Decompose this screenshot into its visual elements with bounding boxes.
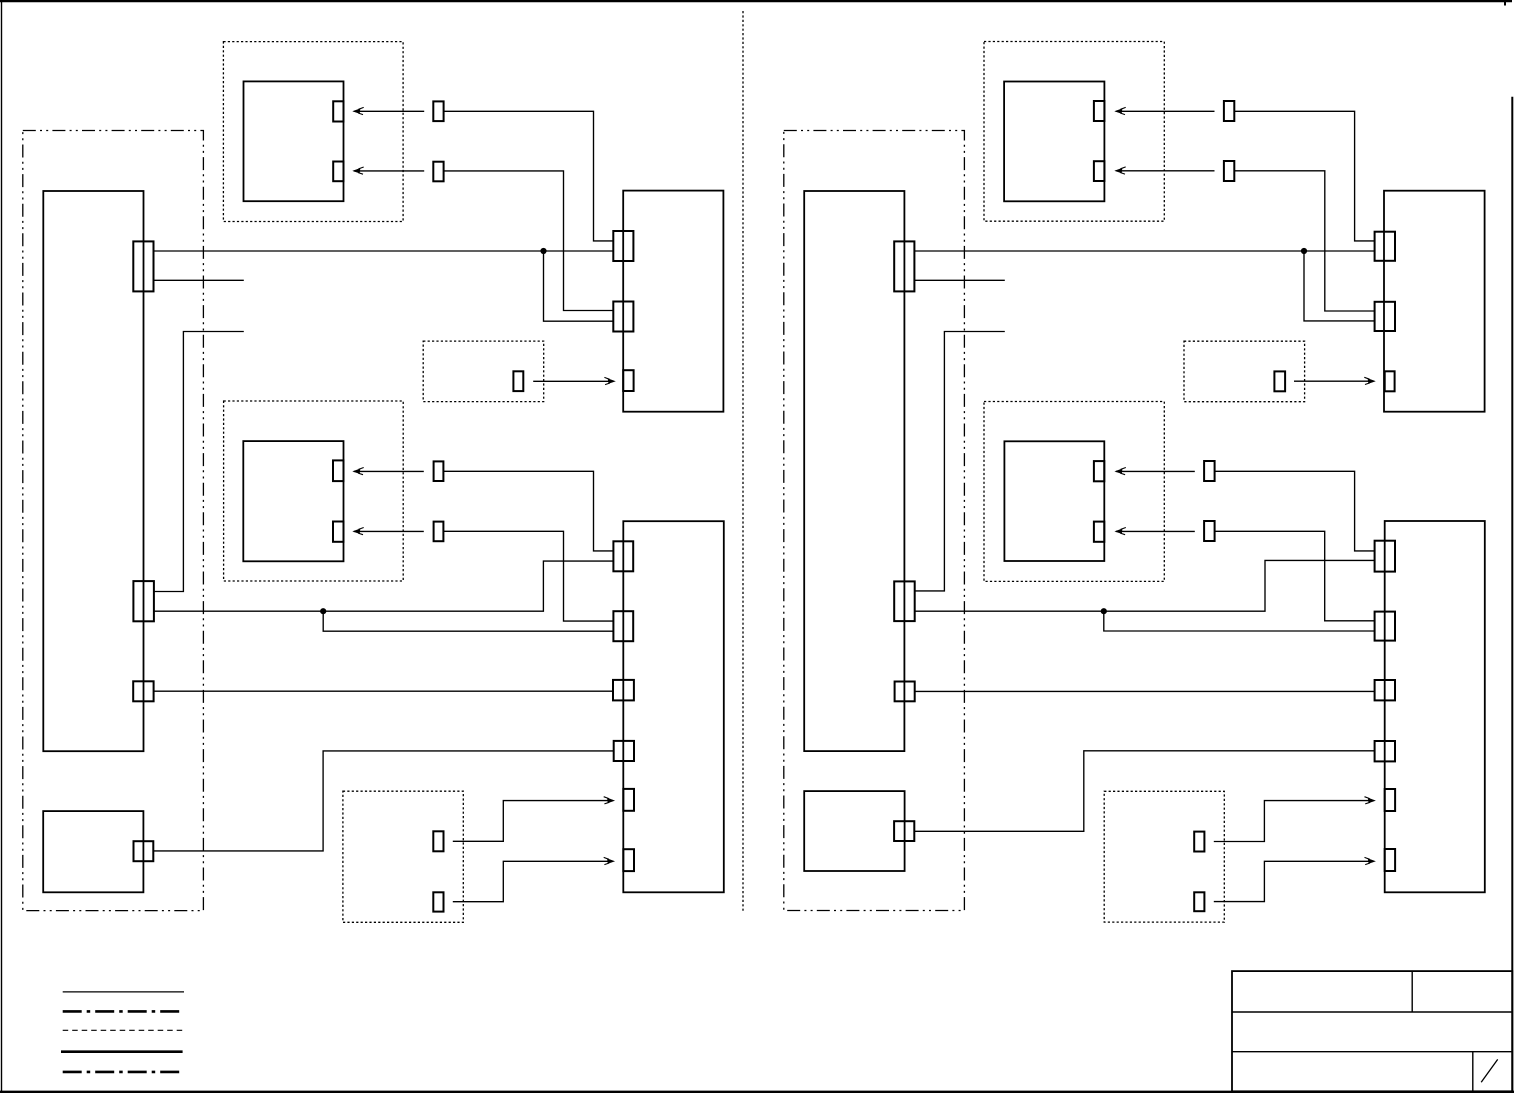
pin 2 of E4 (1375, 612, 1395, 641)
wire C6 to E4 pin1 (with jog up) (915, 560, 1375, 611)
pin 1 of D4 (1094, 461, 1104, 481)
device D1 inside B1 (244, 81, 344, 201)
harness box (dash-dot-dot) left (23, 131, 204, 911)
arrowhead at E2 pin5 (604, 797, 615, 804)
device D3 inside B3 (1004, 82, 1104, 202)
page left border (1, 0, 3, 1092)
title block column divider (top row) (1411, 971, 1413, 1012)
splice connector A3 (434, 461, 444, 481)
wire stub to C6 via riser (915, 332, 1005, 591)
wire A8 to E4 pin2 (1215, 531, 1375, 621)
junction node on C5 wire (1301, 248, 1307, 254)
title block small cell divider (bottom row) (1472, 1052, 1474, 1092)
pin of S1 (513, 371, 523, 391)
pin 4 of E2 (614, 741, 634, 761)
arrow wire into D3 pin1 (1116, 110, 1215, 112)
module box M2 (small, bottom-right half) (804, 791, 904, 871)
pin 5 of E4 (1385, 789, 1395, 811)
splice connector A1 (433, 101, 443, 121)
arrow wire into D1 pin1 (354, 110, 424, 112)
wire branch junction to E2 pin2 (323, 611, 613, 631)
wire stub from C5 (lower) (914, 279, 1004, 281)
pin 4 of E4 (1375, 741, 1395, 761)
arrowhead at E1 pin3 (604, 377, 615, 384)
title block row divider 2 (1232, 1051, 1512, 1053)
arrowhead at D4 pin2 (1115, 528, 1126, 535)
arrowhead at D2 pin2 (353, 528, 364, 535)
wire A6 to E3 pin2 (1234, 171, 1374, 311)
pin 6 of E2 (623, 849, 634, 871)
ECU box E1 (upper-right of left half) (623, 191, 723, 412)
ECU box E3 (upper-right) (1384, 191, 1485, 412)
wire S2 to E3 pin3 (1294, 380, 1373, 382)
connector C5 on U2 (894, 241, 914, 291)
control unit U1 (tall rectangle) left (43, 191, 143, 751)
sensor box (dotted) S1 middle (423, 341, 544, 402)
arrowhead at E3 pin3 (1364, 377, 1375, 384)
wire C5 to E3 pin1 (914, 250, 1374, 252)
wire branch junction to E1 pin2 (544, 251, 614, 321)
wire K1 pin2 to E2 pin6 (453, 861, 613, 901)
pin 2 of E1 (613, 302, 633, 332)
wire branch junction to E3 pin2 (1304, 251, 1375, 321)
wire C7 to E4 pin3 (915, 690, 1375, 692)
title block outline (1232, 971, 1512, 1091)
wire A2 to E1 pin2 (444, 171, 614, 311)
wire C3 to E2 pin3 (154, 690, 613, 692)
connector C7 on U2 (895, 682, 915, 702)
pin 1 of D2 (333, 460, 344, 481)
arrowhead at E4 pin6 (1365, 857, 1376, 864)
arrowhead at D3 pin2 (1115, 167, 1126, 174)
splice connector A4 (434, 522, 444, 542)
wire C2 to E2 pin1 (with jog up) (154, 561, 614, 611)
pin 5 of E2 (623, 789, 634, 811)
wire stub from C1 (lower) (154, 279, 244, 281)
pin 1 of K2 (1194, 832, 1204, 852)
pin 2 of D2 (333, 522, 344, 542)
arrowhead at E4 pin5 (1365, 797, 1376, 804)
splice connector A2 (433, 162, 443, 182)
arrow wire into D4 pin2 (1116, 530, 1195, 532)
pin 3 of E2 (613, 680, 634, 701)
connector C1 on U1 (133, 241, 153, 291)
centre divider (dotted) (742, 11, 744, 911)
arrowhead at D1 pin1 (353, 107, 364, 114)
splice connector A5 (1224, 101, 1234, 121)
connector C8 on M2 (894, 821, 914, 841)
pin 2 of E2 (613, 611, 633, 641)
connector C3 on U1 (133, 681, 153, 701)
legend line 1 (thin solid) (63, 991, 184, 993)
pin 1 of D3 (1094, 101, 1105, 121)
title block row divider 1 (1232, 1011, 1512, 1013)
component box (dotted) B1 top-left (223, 42, 403, 222)
pin 3 of E4 (1375, 680, 1395, 700)
device D2 inside B2 (243, 441, 343, 561)
arrowhead at E2 pin6 (604, 857, 615, 864)
page bottom border (0, 1091, 1514, 1093)
pin 3 of E3 (1385, 371, 1395, 391)
pin 2 of D1 (333, 162, 343, 182)
arrowhead at D4 pin1 (1115, 468, 1126, 475)
junction node on C6 wire (1101, 608, 1107, 614)
wire A3 to E2 pin1 (443, 471, 613, 551)
relay box (dotted) K1 bottom (343, 791, 463, 922)
wire K1 pin1 to E2 pin5 (453, 801, 613, 842)
component box (dotted) B3 top-right (984, 42, 1164, 222)
component box (dotted) B2 mid-left (224, 401, 404, 581)
pin 6 of E4 (1385, 849, 1395, 871)
arrow wire into D3 pin2 (1116, 170, 1215, 172)
pin 3 of E1 (623, 370, 633, 391)
pin 2 of K1 (433, 892, 443, 911)
harness box (dash-dot-dot) right (784, 131, 965, 911)
control unit U2 (tall rectangle) right (804, 191, 904, 751)
legend line 3 (thin dashed) (63, 1029, 184, 1031)
component box (dotted) B4 mid-right (984, 402, 1164, 582)
legend line 5 (thick dash-dot) (63, 1071, 184, 1074)
connector C6 on U2 (894, 581, 915, 621)
pin 1 of E2 (613, 541, 633, 571)
splice connector A8 (1204, 521, 1215, 541)
wire K2 pin1 to E4 pin5 (1214, 801, 1374, 842)
pin of S2 (1274, 371, 1285, 391)
wire C8 to E4 pin4 (914, 751, 1374, 832)
pin 1 of K1 (433, 831, 443, 851)
ECU box E4 (lower-right) (1385, 521, 1485, 892)
module box M1 (small, bottom-left) (43, 811, 143, 892)
arrow wire into D2 pin2 (354, 530, 424, 532)
wire C1 to E1 pin1 (154, 250, 614, 252)
page top border (0, 0, 1512, 2)
legend line 2 (thick dash-dot) (63, 1010, 184, 1013)
arrowhead at D3 pin1 (1115, 107, 1126, 114)
wire A4 to E2 pin2 (443, 531, 613, 621)
arrowhead at D1 pin2 (353, 167, 364, 174)
wire C4 to E2 pin4 (153, 751, 613, 851)
connector C4 on M1 (134, 841, 154, 861)
page top-right corner tick (1504, 0, 1506, 6)
title block diagonal slash (1481, 1059, 1498, 1082)
wire A5 to E3 pin1 (1234, 111, 1374, 241)
pin 2 of K2 (1194, 892, 1204, 911)
pin 1 of D1 (333, 101, 343, 121)
page right border (1511, 97, 1513, 1092)
pin 2 of E3 (1375, 302, 1395, 331)
splice connector A7 (1204, 461, 1215, 481)
pin 1 of E1 (613, 231, 633, 261)
legend line 4 (thick solid) (61, 1050, 183, 1053)
wire A1 to E1 pin1 (444, 111, 614, 241)
wire S1 to E1 pin3 (533, 380, 613, 382)
junction node on C2 wire (320, 608, 326, 614)
pin 2 of D3 (1094, 161, 1105, 181)
sensor box (dotted) S2 middle-right (1184, 341, 1305, 402)
pin 2 of D4 (1094, 522, 1104, 542)
connector C2 on U1 (133, 581, 154, 621)
arrow wire into D2 pin1 (354, 470, 424, 472)
wire branch junction to E4 pin2 (1104, 611, 1375, 631)
relay box (dotted) K2 bottom-right (1104, 791, 1224, 922)
arrow wire into D1 pin2 (354, 170, 424, 172)
arrow wire into D4 pin1 (1116, 470, 1195, 472)
wire A7 to E4 pin1 (1215, 471, 1375, 551)
ECU box E2 (lower-right of left half) (623, 521, 724, 892)
wire K2 pin2 to E4 pin6 (1214, 861, 1374, 901)
pin 1 of E3 (1375, 232, 1395, 261)
arrowhead at D2 pin1 (353, 468, 364, 475)
junction node on C1 wire (540, 248, 546, 254)
pin 1 of E4 (1375, 541, 1395, 572)
splice connector A6 (1224, 161, 1234, 181)
wire stub to C2 via riser (154, 332, 244, 592)
device D4 inside B4 (1004, 441, 1104, 561)
